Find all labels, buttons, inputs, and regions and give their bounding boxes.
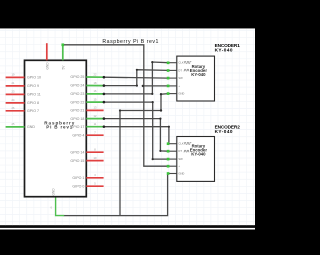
wire GPIO24 to encoder1 DT bbox=[104, 70, 168, 86]
svg-text:GND: GND bbox=[51, 188, 55, 196]
wire Pi GND pin green segment bbox=[56, 197, 65, 216]
pin labels right inside bbox=[70, 75, 84, 188]
pin GPIO 8 bbox=[6, 102, 25, 104]
pin SW bbox=[168, 158, 177, 160]
wire GPIO18 to encoder2 DT bbox=[104, 119, 168, 152]
Raspberry Pi box bbox=[25, 60, 87, 196]
pin GPIO 18 bbox=[86, 118, 103, 120]
svg-text:SW: SW bbox=[178, 157, 183, 161]
svg-text:GPIO 9: GPIO 9 bbox=[27, 84, 39, 88]
pin GPIO 14 (unrouted) bbox=[86, 151, 103, 153]
svg-text:GND: GND bbox=[45, 62, 49, 70]
encoder1 green wire endpoints bbox=[167, 61, 170, 94]
svg-text:CLK: CLK bbox=[178, 142, 183, 146]
wire 5V branch to encoder1 + bbox=[144, 85, 168, 87]
svg-text:SW: SW bbox=[178, 76, 183, 80]
wire GPIO17 to encoder2 CLK bbox=[104, 127, 169, 144]
svg-text:KY-040: KY-040 bbox=[191, 72, 206, 77]
svg-text:CLK: CLK bbox=[178, 61, 183, 65]
svg-text:KY-040: KY-040 bbox=[191, 152, 206, 157]
wire encoder1 GND to ground bus bbox=[120, 94, 168, 216]
pin GPIO 21 (unrouted) bbox=[86, 109, 103, 111]
waveform glyph DT bbox=[184, 150, 190, 152]
encoder2 pin legs bbox=[168, 144, 177, 174]
svg-text:DT: DT bbox=[178, 149, 182, 153]
pin SW bbox=[168, 77, 177, 79]
pin GPIO 7 bbox=[6, 110, 25, 112]
svg-text:GPIO 4: GPIO 4 bbox=[72, 133, 84, 137]
pin GPIO 9 bbox=[6, 85, 25, 87]
svg-text:Pi B rev1: Pi B rev1 bbox=[46, 125, 72, 130]
wire 5V net: top horizontal bbox=[63, 45, 168, 166]
rotary encoder U1 box bbox=[177, 56, 215, 101]
pin + bbox=[168, 165, 177, 167]
pin GPIO 24 bbox=[86, 85, 103, 87]
waveform glyph CLK bbox=[185, 143, 192, 145]
pin GPIO 11 bbox=[6, 93, 25, 95]
svg-text:KY-040: KY-040 bbox=[215, 129, 233, 134]
svg-text:GPIO 15: GPIO 15 bbox=[70, 159, 84, 163]
encoder2 green wire endpoints bbox=[167, 142, 170, 174]
encoder2 pin labels bbox=[178, 142, 184, 176]
pin GIPO 0 (unrouted) bbox=[86, 185, 103, 187]
svg-text:GPIO 11: GPIO 11 bbox=[27, 93, 41, 97]
wire GPIO23 to encoder1 CLK bbox=[104, 62, 168, 94]
pin DT bbox=[168, 69, 177, 71]
svg-text:GPIO 7: GPIO 7 bbox=[27, 109, 39, 113]
wire GPIO22 to encoder2 SW bbox=[104, 102, 168, 159]
pin GPIO 25 bbox=[86, 76, 103, 78]
encoder1 pin labels bbox=[178, 61, 184, 96]
pin GND left (green) bbox=[6, 126, 25, 128]
junction dots on connected right pins bbox=[119, 61, 170, 160]
pin GPIO 17 bbox=[86, 126, 103, 128]
pin GND bbox=[168, 93, 177, 95]
pin CLK bbox=[168, 143, 177, 145]
svg-text:GPIO 10: GPIO 10 bbox=[27, 76, 41, 80]
svg-text:KY-040: KY-040 bbox=[215, 47, 233, 52]
pin GPIO 10 bbox=[6, 76, 25, 78]
svg-text:GND: GND bbox=[27, 125, 35, 129]
node 5V wire end bbox=[61, 43, 64, 46]
pin 5V top (green) bbox=[62, 45, 64, 61]
waveform glyph CLK bbox=[185, 62, 192, 64]
pin labels left inside bbox=[27, 76, 41, 130]
svg-text:GPIO 8: GPIO 8 bbox=[27, 101, 39, 105]
svg-text:GPIO 14: GPIO 14 bbox=[70, 150, 84, 154]
svg-text:GND: GND bbox=[178, 92, 184, 96]
svg-text:GND: GND bbox=[178, 172, 184, 176]
wire GPIO25 to encoder1 SW bbox=[104, 76, 168, 79]
pin GIPO 1 (unrouted) bbox=[86, 177, 103, 179]
right pins bbox=[86, 77, 103, 186]
svg-text:GPIO 23: GPIO 23 bbox=[70, 92, 84, 96]
svg-text:Raspberry Pi B rev1: Raspberry Pi B rev1 bbox=[102, 39, 158, 45]
wires bbox=[63, 45, 169, 216]
pin CLK bbox=[168, 62, 177, 64]
left pins (red unrouted) bbox=[6, 77, 25, 110]
wire ground bus bottom bbox=[64, 174, 168, 216]
svg-text:GPIO 21: GPIO 21 bbox=[70, 109, 84, 113]
pin DT bbox=[168, 150, 177, 152]
svg-text:GIPO 1: GIPO 1 bbox=[72, 176, 84, 180]
svg-text:GIPO 0: GIPO 0 bbox=[72, 184, 84, 188]
pin GND bbox=[168, 173, 177, 175]
pin GPIO 22 bbox=[86, 101, 103, 103]
bendpoint dots bbox=[136, 85, 138, 87]
pin GPIO 4 (unrouted) bbox=[86, 134, 103, 136]
svg-text:GPIO 25: GPIO 25 bbox=[70, 75, 84, 79]
svg-text:DT: DT bbox=[178, 68, 182, 72]
pin GPIO 23 bbox=[86, 93, 103, 95]
rotary encoder U2 box bbox=[177, 137, 215, 182]
svg-text:GPIO 17: GPIO 17 bbox=[70, 125, 84, 129]
waveform glyph DT bbox=[184, 69, 190, 71]
svg-text:GPIO 18: GPIO 18 bbox=[70, 117, 84, 121]
pin + bbox=[168, 85, 177, 87]
svg-text:GPIO 22: GPIO 22 bbox=[70, 100, 84, 104]
pin 3V3 top (red, unrouted) bbox=[46, 43, 48, 60]
tiny pin numbers bbox=[12, 72, 97, 209]
pin GPIO 15 (unrouted) bbox=[86, 160, 103, 162]
svg-text:GPIO 24: GPIO 24 bbox=[70, 84, 84, 88]
encoder1 pin legs bbox=[168, 63, 177, 94]
